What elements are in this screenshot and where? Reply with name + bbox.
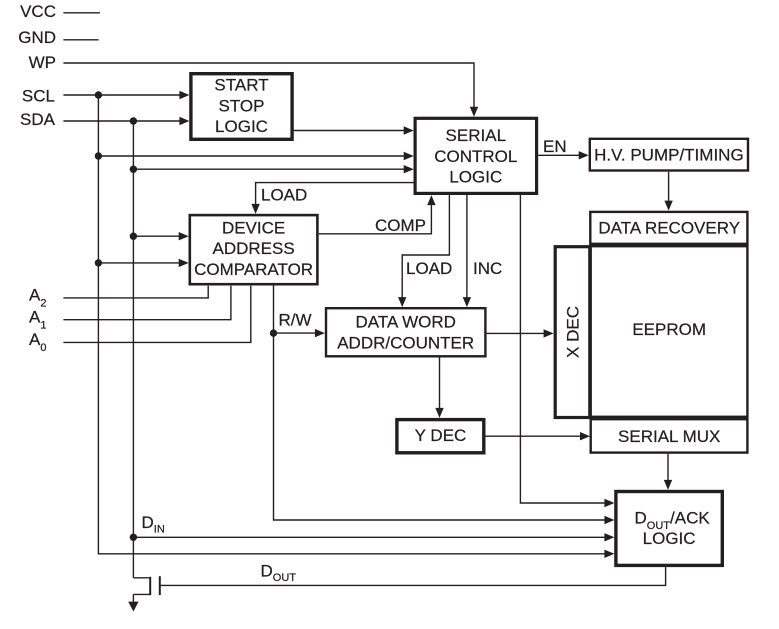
wire SCL vertical rail xyxy=(98,95,604,554)
wire SCL to comparator xyxy=(98,262,179,264)
svg-text:INC: INC xyxy=(473,259,502,278)
svg-text:EN: EN xyxy=(543,137,567,156)
arrow SCL into serial control xyxy=(404,152,414,160)
wire R/W rail to dout-ack xyxy=(274,286,605,521)
arrow LOAD into addr counter xyxy=(398,297,406,307)
svg-text:DATA RECOVERY: DATA RECOVERY xyxy=(598,219,740,238)
arrow scl into dout-ack xyxy=(604,550,614,558)
block DOUT/ACK LOGIC xyxy=(616,492,722,566)
wire serial control to dout-ack xyxy=(520,195,604,503)
svg-text:LOGIC: LOGIC xyxy=(643,529,696,548)
junction SCL-2 xyxy=(95,152,102,159)
wire HV pump to data recovery xyxy=(668,172,670,202)
junction dots xyxy=(95,91,277,541)
wire SDA to comparator xyxy=(133,235,179,237)
junction SDA-3 xyxy=(130,233,137,240)
svg-text:WP: WP xyxy=(29,53,56,72)
wire DIN net xyxy=(133,536,604,538)
arrow SDA into comparator xyxy=(179,232,189,240)
wire LOAD net to comparator xyxy=(256,183,414,205)
block X DEC xyxy=(555,247,590,418)
arrow HV pump into data recovery xyxy=(664,201,672,211)
wire SDA to serial control xyxy=(133,168,404,170)
svg-text:EEPROM: EEPROM xyxy=(632,320,706,339)
svg-text:Y DEC: Y DEC xyxy=(415,426,467,445)
arrow addr counter into Y DEC xyxy=(435,408,443,418)
svg-text:LOAD: LOAD xyxy=(261,186,307,205)
svg-text:DEVICE: DEVICE xyxy=(222,218,285,237)
svg-text:ADDRESS: ADDRESS xyxy=(213,239,295,258)
svg-text:COMP: COMP xyxy=(375,216,426,235)
wire A2 net xyxy=(63,286,208,298)
svg-text:COMPARATOR: COMPARATOR xyxy=(194,260,313,279)
pin GND stub xyxy=(63,39,98,41)
wire SDA input xyxy=(63,120,180,122)
svg-text:CONTROL: CONTROL xyxy=(434,147,517,166)
block SERIAL CONTROL LOGIC xyxy=(415,118,536,193)
wire A0 net xyxy=(63,286,250,343)
block EEPROM xyxy=(591,246,748,417)
transistor Q1 open drain xyxy=(133,576,159,602)
arrow start-stop out xyxy=(404,126,414,134)
block Y DEC xyxy=(397,420,484,453)
arrow WP into serial control xyxy=(470,107,478,117)
arrow rw into dout-ack xyxy=(604,516,614,524)
arrow EN into HV pump xyxy=(579,151,589,159)
wire INC net xyxy=(466,195,468,298)
wire A1 net xyxy=(63,286,231,320)
wire WP net xyxy=(63,63,474,108)
svg-text:LOGIC: LOGIC xyxy=(449,168,502,187)
arrow LOAD into comparator xyxy=(251,204,259,214)
wire serial mux to dout-ack xyxy=(667,454,669,481)
svg-text:LOAD: LOAD xyxy=(406,259,452,278)
wire EN net xyxy=(538,154,579,156)
svg-text:X DEC: X DEC xyxy=(563,306,582,358)
block DATA WORD ADDR/COUNTER xyxy=(326,308,485,356)
svg-text:ADDR/COUNTER: ADDR/COUNTER xyxy=(337,334,474,353)
svg-text:GND: GND xyxy=(18,28,56,47)
wire R/W to addr counter xyxy=(274,332,316,334)
svg-text:R/W: R/W xyxy=(279,311,312,330)
arrow rail1 into dout-ack xyxy=(604,499,614,507)
block SERIAL MUX xyxy=(591,419,748,452)
arrow din into dout-ack xyxy=(604,533,614,541)
wire COMP net xyxy=(319,205,432,234)
wire SCL input xyxy=(63,94,180,96)
junction SCL-3 xyxy=(95,259,102,266)
arrowheads xyxy=(179,91,673,558)
junction SDA-2 xyxy=(130,166,137,173)
wire Y DEC to serial mux xyxy=(486,435,581,437)
pin VCC stub xyxy=(63,12,100,14)
wire LOAD net to addr counter xyxy=(402,195,449,298)
wire SDA vertical rail xyxy=(132,121,134,578)
arrow SDA into serial control xyxy=(404,165,414,173)
svg-text:SDA: SDA xyxy=(20,110,56,129)
svg-text:SERIAL: SERIAL xyxy=(446,126,506,145)
wire SCL to serial control xyxy=(98,155,404,157)
svg-text:STOP: STOP xyxy=(219,96,265,115)
junction R/W xyxy=(270,329,277,336)
svg-text:LOGIC: LOGIC xyxy=(215,117,268,136)
svg-text:VCC: VCC xyxy=(20,2,56,21)
arrow SCL into comparator xyxy=(179,259,189,267)
ground symbol xyxy=(128,602,138,612)
arrow COMP into serial control xyxy=(427,195,435,205)
svg-text:H.V. PUMP/TIMING: H.V. PUMP/TIMING xyxy=(594,146,744,165)
svg-text:SCL: SCL xyxy=(22,87,55,106)
block DATA RECOVERY xyxy=(590,212,747,244)
arrow serial mux into dout-ack xyxy=(664,480,672,490)
block H.V. PUMP/TIMING xyxy=(590,139,748,171)
wire addr counter to X DEC xyxy=(487,332,544,334)
wire DOUT net xyxy=(160,567,666,585)
block DEVICE ADDRESS COMPARATOR xyxy=(190,215,318,284)
arrow SCL into start-stop xyxy=(179,91,189,99)
svg-text:START: START xyxy=(214,76,268,95)
block START STOP LOGIC xyxy=(191,74,292,140)
arrow R/W into addr counter xyxy=(315,329,325,337)
junction SDA-1 xyxy=(130,117,137,124)
wire addr counter to Y DEC xyxy=(439,358,441,409)
arrow INC into addr counter xyxy=(463,297,471,307)
svg-text:DATA WORD: DATA WORD xyxy=(355,313,455,332)
junction SCL-1 xyxy=(95,91,102,98)
arrow Y DEC into serial mux xyxy=(580,432,590,440)
svg-text:SERIAL MUX: SERIAL MUX xyxy=(618,427,720,446)
arrow addr counter into X DEC xyxy=(544,329,554,337)
junction DIN xyxy=(130,534,137,541)
arrow SDA into start-stop xyxy=(179,117,189,125)
wire start-stop to serial control xyxy=(294,130,404,132)
